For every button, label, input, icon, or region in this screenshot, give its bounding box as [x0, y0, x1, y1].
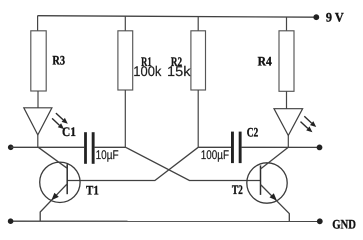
svg-text:100k: 100k — [133, 63, 162, 79]
wire C1 to R1 junction — [95, 146, 126, 148]
svg-text:C1: C1 — [62, 124, 76, 139]
LED D2 triangle — [274, 109, 303, 136]
wire R2 junction to C2 — [198, 146, 231, 148]
resistor R2 — [191, 31, 206, 90]
node right mid terminal dot — [317, 145, 323, 151]
resistor R3 — [31, 31, 46, 91]
wire R3 bottom to LED1 — [37, 91, 39, 108]
wire cross-coupling junction to T2 base — [126, 147, 261, 180]
node left bottom terminal dot — [8, 218, 14, 224]
wire rail to R1 top — [124, 16, 126, 31]
resistor R4 — [279, 31, 294, 92]
svg-text:C2: C2 — [247, 125, 259, 140]
svg-text:15k: 15k — [167, 63, 192, 79]
LED D1 triangle — [24, 108, 52, 135]
wire LED1 to node A — [37, 135, 39, 147]
wire C2 to right mid terminal — [242, 146, 320, 148]
node 9V terminal dot — [313, 14, 319, 20]
svg-text:10µF: 10µF — [96, 148, 119, 162]
wire LED2 to T2 collector node — [287, 136, 289, 148]
wire rail to R4 top — [286, 17, 288, 31]
wire T1 emitter with arrow — [40, 184, 67, 221]
wire R1 bottom to junction — [124, 90, 126, 147]
transistor T2 body — [247, 163, 287, 203]
svg-text:GND: GND — [332, 217, 356, 232]
wire left mid line to C1 — [11, 146, 84, 148]
wire cross-coupling junction to T1 base — [67, 147, 198, 180]
svg-text:R4: R4 — [258, 53, 273, 68]
wire T2 emitter with arrow — [261, 185, 290, 222]
svg-text:R3: R3 — [52, 52, 65, 67]
wire rail to R2 top — [197, 17, 199, 31]
capacitor C2 — [231, 132, 242, 164]
svg-text:T1: T1 — [86, 183, 99, 198]
wire T2 collector — [261, 147, 289, 169]
transistor T1 body — [40, 162, 80, 202]
capacitor C1 — [84, 132, 95, 164]
LED D2 emission arrows — [301, 116, 317, 132]
svg-text:9 V: 9 V — [326, 10, 344, 25]
wire top supply rail — [38, 16, 317, 18]
wire bottom ground rail — [11, 220, 320, 222]
node left mid terminal dot — [8, 145, 14, 151]
resistor R1 — [118, 31, 133, 90]
wire R2 bottom to junction — [197, 90, 199, 147]
node GND terminal dot — [317, 218, 323, 224]
LED D1 emission arrows — [52, 113, 68, 129]
svg-text:T2: T2 — [232, 182, 243, 197]
svg-text:100µF: 100µF — [201, 148, 229, 162]
wire T1 collector — [38, 147, 67, 168]
wire R4 bottom to LED2 — [286, 91, 288, 108]
wire rail to R3 top — [37, 16, 39, 31]
